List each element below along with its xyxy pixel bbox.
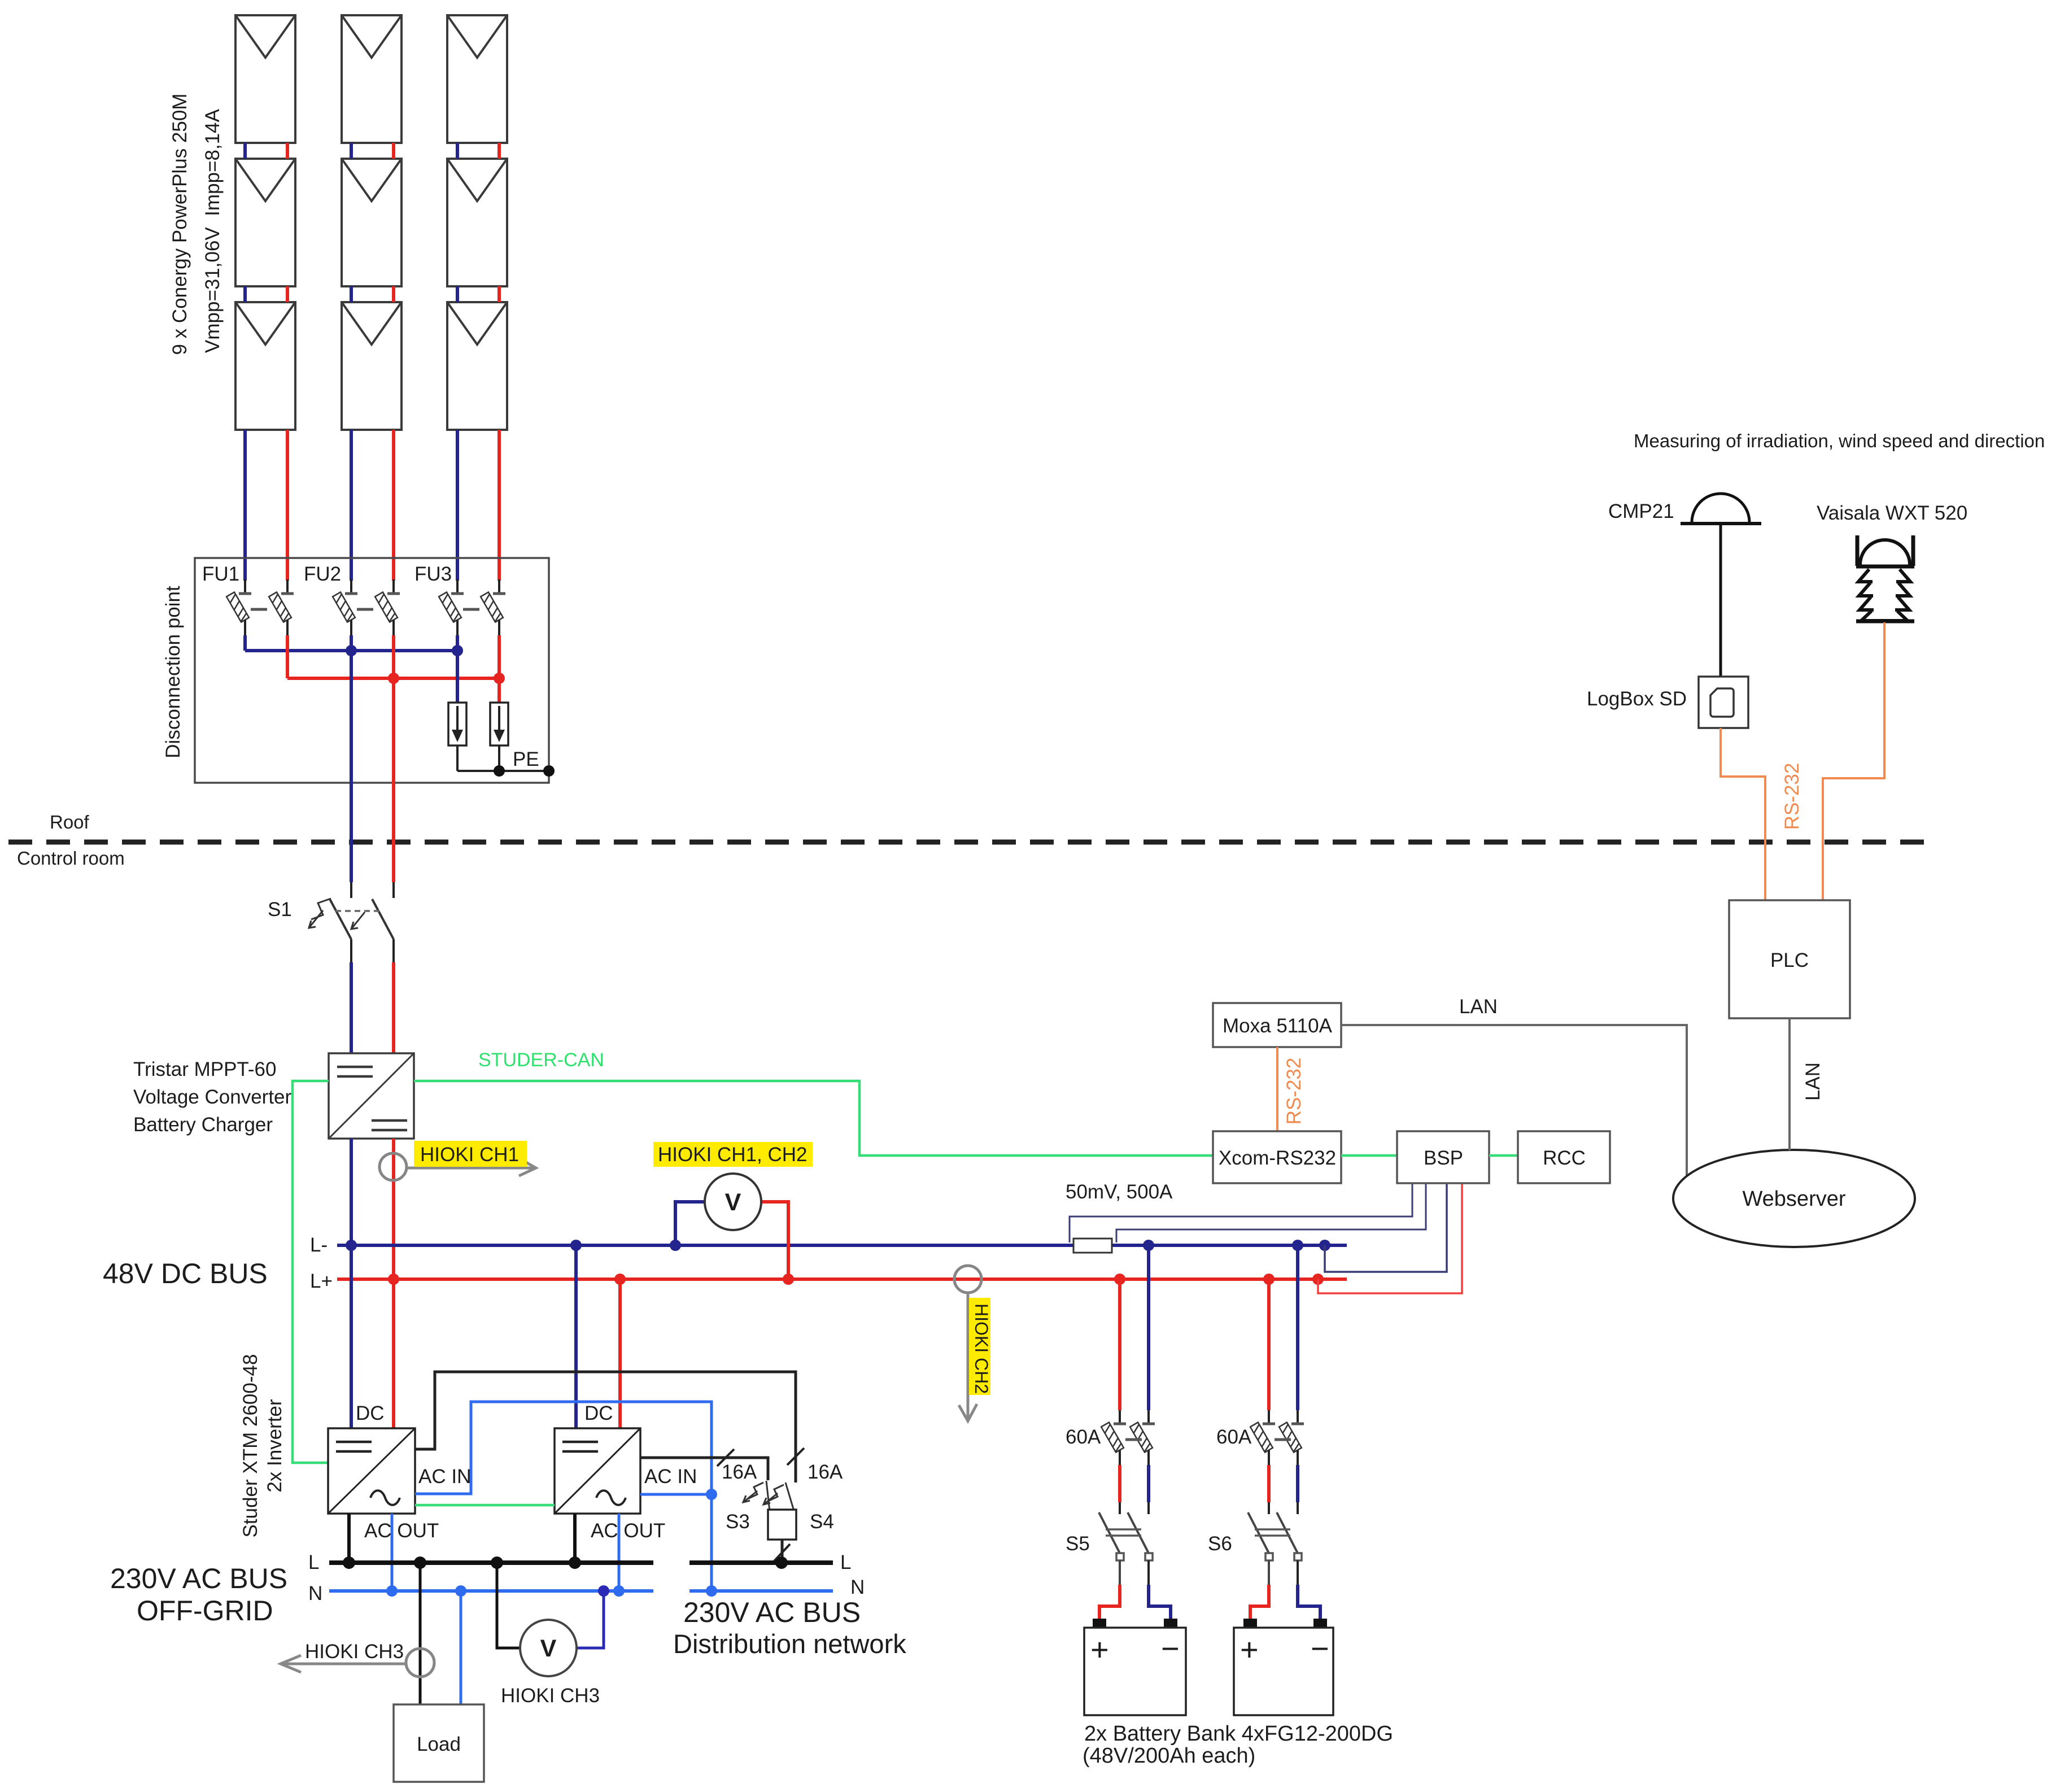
label S1 — [268, 899, 292, 921]
label Battery Charger — [133, 1114, 273, 1136]
label 48V DC BUS — [103, 1258, 268, 1289]
voltmeter V2 — [520, 1620, 577, 1676]
PV module PV2 — [235, 159, 295, 286]
wire L bus off-grid — [329, 1560, 653, 1565]
PV module PV6 — [342, 302, 401, 430]
label S3 — [726, 1511, 750, 1533]
fuse 60A battery2 negative — [1279, 1422, 1304, 1465]
svg-text:LogBox SD: LogBox SD — [1587, 688, 1687, 710]
PV module PV3 — [235, 302, 295, 430]
svg-text:−: − — [1311, 1630, 1329, 1666]
svg-text:L+: L+ — [310, 1270, 333, 1292]
svg-text:N: N — [308, 1582, 322, 1604]
label measuring header — [1634, 430, 2045, 451]
svg-text:(48V/200Ah each): (48V/200Ah each) — [1083, 1744, 1255, 1768]
wire inverter2 AC in blue — [640, 1493, 712, 1496]
wire positive collector bus — [287, 635, 499, 678]
wire negative collector bus — [245, 635, 457, 651]
node N voltmeter junction — [598, 1585, 609, 1597]
wire 48V DC bus positive L+ — [337, 1277, 1347, 1281]
wire STUDER-CAN right branch — [414, 1081, 1213, 1156]
wire S1 to MPPT positive — [392, 939, 395, 1054]
label Tristar MPPT-60 — [133, 1058, 276, 1080]
wire string2 positive feed — [392, 430, 395, 581]
PV module PV8 — [447, 159, 507, 286]
wire CMP21 stem — [1719, 525, 1722, 678]
fuse FU1 positive — [269, 579, 294, 635]
svg-text:48V DC BUS: 48V DC BUS — [103, 1258, 268, 1289]
wire 48V DC bus negative L- — [337, 1244, 1347, 1247]
PV module PV5 — [342, 159, 401, 286]
wire MPPT to DC bus negative — [350, 1139, 353, 1245]
fuse 60A battery1 link — [1125, 1438, 1142, 1441]
fuse 60A battery1 positive — [1101, 1422, 1126, 1465]
wire BSP negative tap — [1325, 1184, 1447, 1272]
svg-text:HIOKI CH2: HIOKI CH2 — [971, 1303, 992, 1394]
wire string3 negative links — [456, 143, 459, 302]
label LAN vertical — [1802, 1062, 1824, 1101]
node N bus junctions — [386, 1585, 625, 1597]
svg-text:Disconnection point: Disconnection point — [162, 586, 184, 758]
wire arrester positive drop — [497, 678, 501, 703]
label Voltage Converter — [133, 1086, 292, 1108]
wire inverter1 AC out L — [347, 1514, 351, 1563]
label DC inverter1 — [356, 1402, 385, 1424]
wire battery2 positive drop — [1267, 1279, 1271, 1424]
label L right — [840, 1551, 851, 1573]
svg-text:RCC: RCC — [1543, 1147, 1586, 1169]
label HIOKI CH3 meter — [501, 1685, 600, 1707]
label CMP21 — [1608, 500, 1674, 522]
svg-text:2x Battery Bank 4xFG12-200DG: 2x Battery Bank 4xFG12-200DG — [1084, 1722, 1393, 1746]
svg-text:HIOKI CH1, CH2: HIOKI CH1, CH2 — [658, 1144, 808, 1166]
svg-text:Xcom-RS232: Xcom-RS232 — [1219, 1147, 1336, 1169]
label L- — [310, 1234, 328, 1256]
svg-text:Moxa 5110A: Moxa 5110A — [1223, 1015, 1333, 1037]
wire AC in outer black loop — [415, 1372, 796, 1483]
svg-text:+: + — [1090, 1632, 1109, 1667]
svg-text:Control room: Control room — [17, 848, 125, 869]
svg-text:DC: DC — [356, 1402, 385, 1424]
svg-text:Webserver: Webserver — [1742, 1187, 1845, 1211]
wire battery2 positive tail — [1250, 1560, 1269, 1620]
label 60A battery1 — [1066, 1426, 1101, 1448]
fuse FU3 negative — [439, 579, 464, 635]
switch S6 pole 1 — [1248, 1512, 1269, 1553]
fuse FU2 negative — [333, 579, 357, 635]
svg-text:9 x Conergy PowerPlus 250M: 9 x Conergy PowerPlus 250M — [169, 94, 191, 355]
wire battery1 negative drop — [1147, 1245, 1150, 1424]
label FU2 — [304, 563, 341, 585]
svg-text:Distribution network: Distribution network — [673, 1629, 906, 1659]
wire string1 negative links — [243, 143, 247, 302]
current probe HIOKI CH3 — [406, 1649, 434, 1677]
svg-text:Studer XTM 2600-48: Studer XTM 2600-48 — [239, 1354, 261, 1538]
label Control room — [17, 848, 125, 869]
svg-text:Roof: Roof — [50, 812, 90, 832]
label 60A battery2 — [1216, 1426, 1252, 1448]
wire battery2 positive mid — [1267, 1465, 1271, 1514]
svg-text:PLC: PLC — [1770, 949, 1809, 971]
node L- junctions — [346, 1240, 1330, 1251]
wire string3 positive feed — [497, 430, 501, 581]
label STUDER-CAN — [478, 1049, 604, 1071]
anemometer Vaisala WXT520 — [1856, 535, 1914, 621]
switch S5 linkage — [1106, 1529, 1141, 1536]
wire inverter2 AC out L — [573, 1514, 577, 1563]
switch S1 linkage — [335, 910, 379, 912]
svg-text:Voltage Converter: Voltage Converter — [133, 1086, 292, 1108]
PV module PV7 — [447, 15, 507, 143]
svg-text:−: − — [1161, 1630, 1180, 1666]
wire L bus distribution — [689, 1560, 833, 1565]
label AC IN inverter1 — [418, 1466, 471, 1488]
load box — [394, 1704, 484, 1782]
pyranometer CMP21 — [1681, 494, 1761, 524]
wire load L drop — [419, 1563, 422, 1704]
wire positive feed to S1 — [392, 678, 395, 898]
wire STUDER-CAN left branch — [293, 1081, 329, 1463]
label Studer XTM 2600-48 — [239, 1354, 261, 1538]
battery bank 2 — [1234, 1619, 1333, 1715]
wire battery2 negative mid — [1296, 1465, 1299, 1514]
disconnection point label — [162, 586, 184, 758]
wire inverter2 AC in black — [640, 1458, 768, 1480]
wire DC feed inverter1 positive — [392, 1279, 395, 1428]
label battery bank line2 — [1083, 1744, 1255, 1768]
MPPT charge controller U1 — [329, 1053, 414, 1139]
svg-text:BSP: BSP — [1424, 1147, 1463, 1169]
shunt resistor 50mV 500A — [1073, 1239, 1112, 1253]
svg-text:LAN: LAN — [1459, 996, 1498, 1018]
switch S5 contacts — [1116, 1553, 1153, 1560]
label DC inverter2 — [584, 1402, 613, 1424]
label 16A S4 — [808, 1461, 843, 1483]
wire voltmeter V1 negative lead — [675, 1202, 705, 1245]
svg-text:60A: 60A — [1066, 1426, 1101, 1448]
arrow HIOKI CH3 — [281, 1655, 406, 1672]
wire battery1 negative tail — [1149, 1560, 1171, 1620]
switch S6 linkage — [1255, 1529, 1290, 1536]
svg-text:50mV, 500A: 50mV, 500A — [1066, 1181, 1173, 1203]
svg-text:AC OUT: AC OUT — [364, 1520, 439, 1542]
breaker S4 — [763, 1483, 794, 1511]
label AC OUT inverter2 — [591, 1520, 665, 1542]
fuse 60A battery1 negative — [1130, 1422, 1155, 1465]
node L+ junctions — [388, 1274, 1324, 1285]
label FU3 — [414, 563, 452, 585]
arrow HIOKI CH2 — [959, 1293, 977, 1421]
roof boundary dashed line — [8, 840, 1937, 845]
inverter U2 Studer XTM — [328, 1428, 415, 1514]
wire battery2 negative drop — [1296, 1245, 1299, 1424]
current probe HIOKI CH2 — [954, 1266, 981, 1293]
label HIOKI CH3 left — [305, 1641, 404, 1663]
label HIOKI CH2 — [969, 1298, 992, 1395]
box Moxa 5110A — [1213, 1003, 1341, 1047]
svg-text:AC OUT: AC OUT — [591, 1520, 665, 1542]
wire string1 positive links — [286, 143, 289, 302]
svg-text:L: L — [308, 1551, 319, 1573]
label 50mV, 500A — [1066, 1181, 1173, 1203]
PV module PV9 — [447, 302, 507, 430]
label L left — [308, 1551, 319, 1573]
label RS-232 sensors — [1781, 763, 1803, 830]
label Distribution network — [673, 1629, 906, 1659]
label N left — [308, 1582, 322, 1604]
svg-text:Tristar MPPT-60: Tristar MPPT-60 — [133, 1058, 276, 1080]
breaker body S3 S4 — [768, 1510, 796, 1540]
wire STUDER-CAN BSP to RCC — [1489, 1154, 1518, 1157]
svg-text:Battery Charger: Battery Charger — [133, 1114, 273, 1136]
switch S5 pole 1 — [1099, 1512, 1120, 1553]
breaker slash 16A S4 — [787, 1448, 804, 1465]
label 2x Inverter — [264, 1399, 286, 1493]
svg-text:RS-232: RS-232 — [1283, 1058, 1305, 1125]
switch S1 pole 2 — [372, 899, 394, 939]
wire string3 positive links — [497, 143, 501, 302]
label FU1 — [202, 563, 239, 585]
svg-text:230V AC BUS: 230V AC BUS — [683, 1597, 861, 1628]
svg-text:Measuring of irradiation, wind: Measuring of irradiation, wind speed and… — [1634, 430, 2045, 451]
switch S5 pole 2 — [1128, 1512, 1149, 1553]
wire RS-232 Moxa to Xcom — [1276, 1047, 1278, 1131]
battery bank 1 — [1084, 1619, 1186, 1715]
node L bus junctions — [343, 1556, 788, 1569]
label AC OUT inverter1 — [364, 1520, 439, 1542]
svg-text:STUDER-CAN: STUDER-CAN — [478, 1049, 604, 1071]
svg-text:RS-232: RS-232 — [1781, 763, 1803, 830]
wire BSP sense B — [1116, 1184, 1426, 1242]
wire arrester negative drop — [456, 651, 459, 703]
wire STUDER-CAN Xcom to BSP — [1341, 1154, 1397, 1157]
label LogBox SD — [1587, 688, 1687, 710]
breaker slash 16A S3 — [717, 1449, 734, 1466]
svg-text:CMP21: CMP21 — [1608, 500, 1674, 522]
svg-text:16A: 16A — [722, 1461, 757, 1483]
svg-text:L: L — [840, 1551, 851, 1573]
switch S6 pole 2 — [1277, 1512, 1298, 1553]
label AC IN inverter2 — [644, 1466, 697, 1488]
fuse FU2 positive — [375, 579, 400, 635]
svg-text:FU1: FU1 — [202, 563, 239, 585]
svg-text:PE: PE — [513, 748, 539, 770]
svg-text:Vmpp=31,06V Impp=8,14A: Vmpp=31,06V Impp=8,14A — [202, 108, 224, 353]
wire string2 negative feed — [350, 430, 353, 581]
wire string1 positive feed — [286, 430, 289, 581]
breaker S3 — [743, 1481, 770, 1511]
node PE junctions — [494, 765, 555, 777]
svg-text:230V AC BUS: 230V AC BUS — [110, 1563, 287, 1594]
fuse FU1 link — [251, 608, 267, 611]
svg-text:V: V — [540, 1635, 557, 1662]
svg-text:HIOKI CH3: HIOKI CH3 — [501, 1685, 600, 1707]
fuse FU1 negative — [226, 579, 251, 635]
wire BSP positive tap — [1318, 1184, 1462, 1293]
svg-text:FU3: FU3 — [414, 563, 452, 585]
box BSP — [1397, 1131, 1489, 1183]
wire RS-232 LogBox to PLC — [1721, 728, 1765, 900]
label 230V AC BUS left — [110, 1563, 287, 1594]
svg-text:Vaisala WXT 520: Vaisala WXT 520 — [1817, 502, 1967, 524]
wire string1 negative feed — [243, 430, 247, 581]
wire load N drop — [460, 1591, 462, 1704]
svg-text:S5: S5 — [1066, 1533, 1090, 1555]
svg-text:N: N — [850, 1576, 865, 1598]
wire DC feed inverter2 negative — [574, 1245, 578, 1428]
wire string2 positive links — [392, 143, 395, 302]
wire S1 to MPPT negative — [350, 939, 352, 1054]
svg-text:HIOKI CH3: HIOKI CH3 — [305, 1641, 404, 1663]
node positive junctions — [388, 673, 505, 684]
label 16A S3 — [722, 1461, 757, 1483]
surge arrester F1 — [448, 703, 466, 745]
fuse FU3 positive — [481, 579, 505, 635]
current probe HIOKI CH1 — [379, 1153, 407, 1180]
breaker slash output — [774, 1544, 790, 1561]
label PE — [513, 748, 539, 770]
wire battery1 positive drop — [1118, 1279, 1121, 1424]
wire MPPT to DC bus positive — [392, 1139, 395, 1279]
svg-text:HIOKI CH1: HIOKI CH1 — [420, 1144, 519, 1166]
wire PE earth run — [457, 745, 549, 771]
wire inverter2 AC out N — [618, 1514, 621, 1591]
wire inverter1 AC out N — [391, 1514, 394, 1591]
switch S1 handle — [309, 899, 365, 929]
disconnection point box — [195, 558, 549, 783]
webserver ellipse — [1673, 1150, 1915, 1247]
wire LAN Moxa to webserver — [1341, 1025, 1687, 1178]
svg-text:L-: L- — [310, 1234, 328, 1256]
fuse 60A battery2 positive — [1250, 1422, 1275, 1465]
switch S6 contacts — [1265, 1553, 1302, 1560]
svg-text:AC IN: AC IN — [418, 1466, 471, 1488]
label RS-232 vertical — [1283, 1058, 1305, 1125]
wire voltmeter V2 N lead — [577, 1591, 604, 1648]
switch S1 pole 1 — [330, 899, 351, 939]
svg-text:FU2: FU2 — [304, 563, 341, 585]
PV module label — [169, 94, 191, 355]
wire battery1 positive mid — [1118, 1465, 1121, 1514]
wire N bus distribution — [689, 1589, 833, 1593]
label 230V AC BUS right — [683, 1597, 861, 1628]
wire breaker to L bus — [781, 1540, 784, 1563]
label S6 — [1208, 1533, 1232, 1555]
svg-text:Load: Load — [417, 1733, 461, 1755]
PV module PV1 — [235, 15, 295, 143]
label S5 — [1066, 1533, 1090, 1555]
label HIOKI CH1, CH2 — [653, 1142, 813, 1167]
box PLC — [1729, 900, 1850, 1018]
svg-text:S1: S1 — [268, 899, 292, 921]
PV ratings label — [202, 108, 224, 353]
box Xcom-RS232 — [1213, 1131, 1341, 1183]
label L+ — [310, 1270, 333, 1292]
fuse FU3 link — [463, 608, 479, 611]
voltmeter V1 — [705, 1174, 761, 1230]
wire voltmeter V2 L lead — [497, 1563, 520, 1648]
wire N bus off-grid — [329, 1589, 653, 1593]
wire string3 negative feed — [456, 430, 459, 581]
node negative junctions — [346, 645, 463, 656]
svg-text:V: V — [725, 1189, 741, 1216]
wire LAN PLC to webserver — [1788, 1018, 1791, 1150]
label Roof — [50, 812, 90, 832]
label S4 — [810, 1511, 834, 1533]
svg-text:DC: DC — [584, 1402, 613, 1424]
svg-text:16A: 16A — [808, 1461, 843, 1483]
surge arrester F2 — [490, 703, 508, 745]
label LAN horizontal — [1459, 996, 1498, 1018]
wire battery2 negative tail — [1298, 1560, 1320, 1620]
svg-text:S4: S4 — [810, 1511, 834, 1533]
svg-text:2x Inverter: 2x Inverter — [264, 1399, 286, 1493]
wire voltmeter V1 positive lead — [761, 1202, 788, 1279]
box RCC — [1518, 1131, 1610, 1183]
wire DC feed inverter2 positive — [618, 1279, 622, 1428]
svg-text:60A: 60A — [1216, 1426, 1252, 1448]
inverter U3 Studer XTM — [555, 1428, 640, 1514]
fuse 60A battery2 link — [1275, 1438, 1291, 1441]
wire battery1 positive tail — [1099, 1560, 1120, 1620]
fuse FU2 link — [357, 608, 373, 611]
svg-text:OFF-GRID: OFF-GRID — [137, 1595, 273, 1627]
label N right — [850, 1576, 865, 1598]
wire negative feed to S1 — [350, 651, 353, 898]
wire RS-232 Vaisala to PLC — [1823, 622, 1884, 900]
wire BSP sense A — [1070, 1184, 1412, 1242]
label OFF-GRID — [137, 1595, 273, 1627]
label battery bank line1 — [1084, 1722, 1393, 1746]
wire DC feed inverter1 negative — [350, 1245, 353, 1428]
box LogBox SD — [1699, 677, 1748, 728]
label HIOKI CH1 — [414, 1141, 527, 1167]
wire AC in blue loop — [415, 1402, 712, 1591]
svg-text:+: + — [1240, 1632, 1259, 1667]
svg-text:S6: S6 — [1208, 1533, 1232, 1555]
wire string2 negative links — [350, 143, 353, 302]
label Vaisala WXT 520 — [1817, 502, 1967, 524]
PV module PV4 — [342, 15, 401, 143]
svg-text:LAN: LAN — [1802, 1062, 1824, 1101]
svg-text:AC IN: AC IN — [644, 1466, 697, 1488]
wire STUDER-CAN inverter link — [415, 1504, 555, 1507]
node AC in blue junctions — [706, 1489, 717, 1597]
wire battery1 negative mid — [1147, 1465, 1150, 1514]
svg-text:S3: S3 — [726, 1511, 750, 1533]
arrow HIOKI CH1 — [407, 1159, 536, 1176]
